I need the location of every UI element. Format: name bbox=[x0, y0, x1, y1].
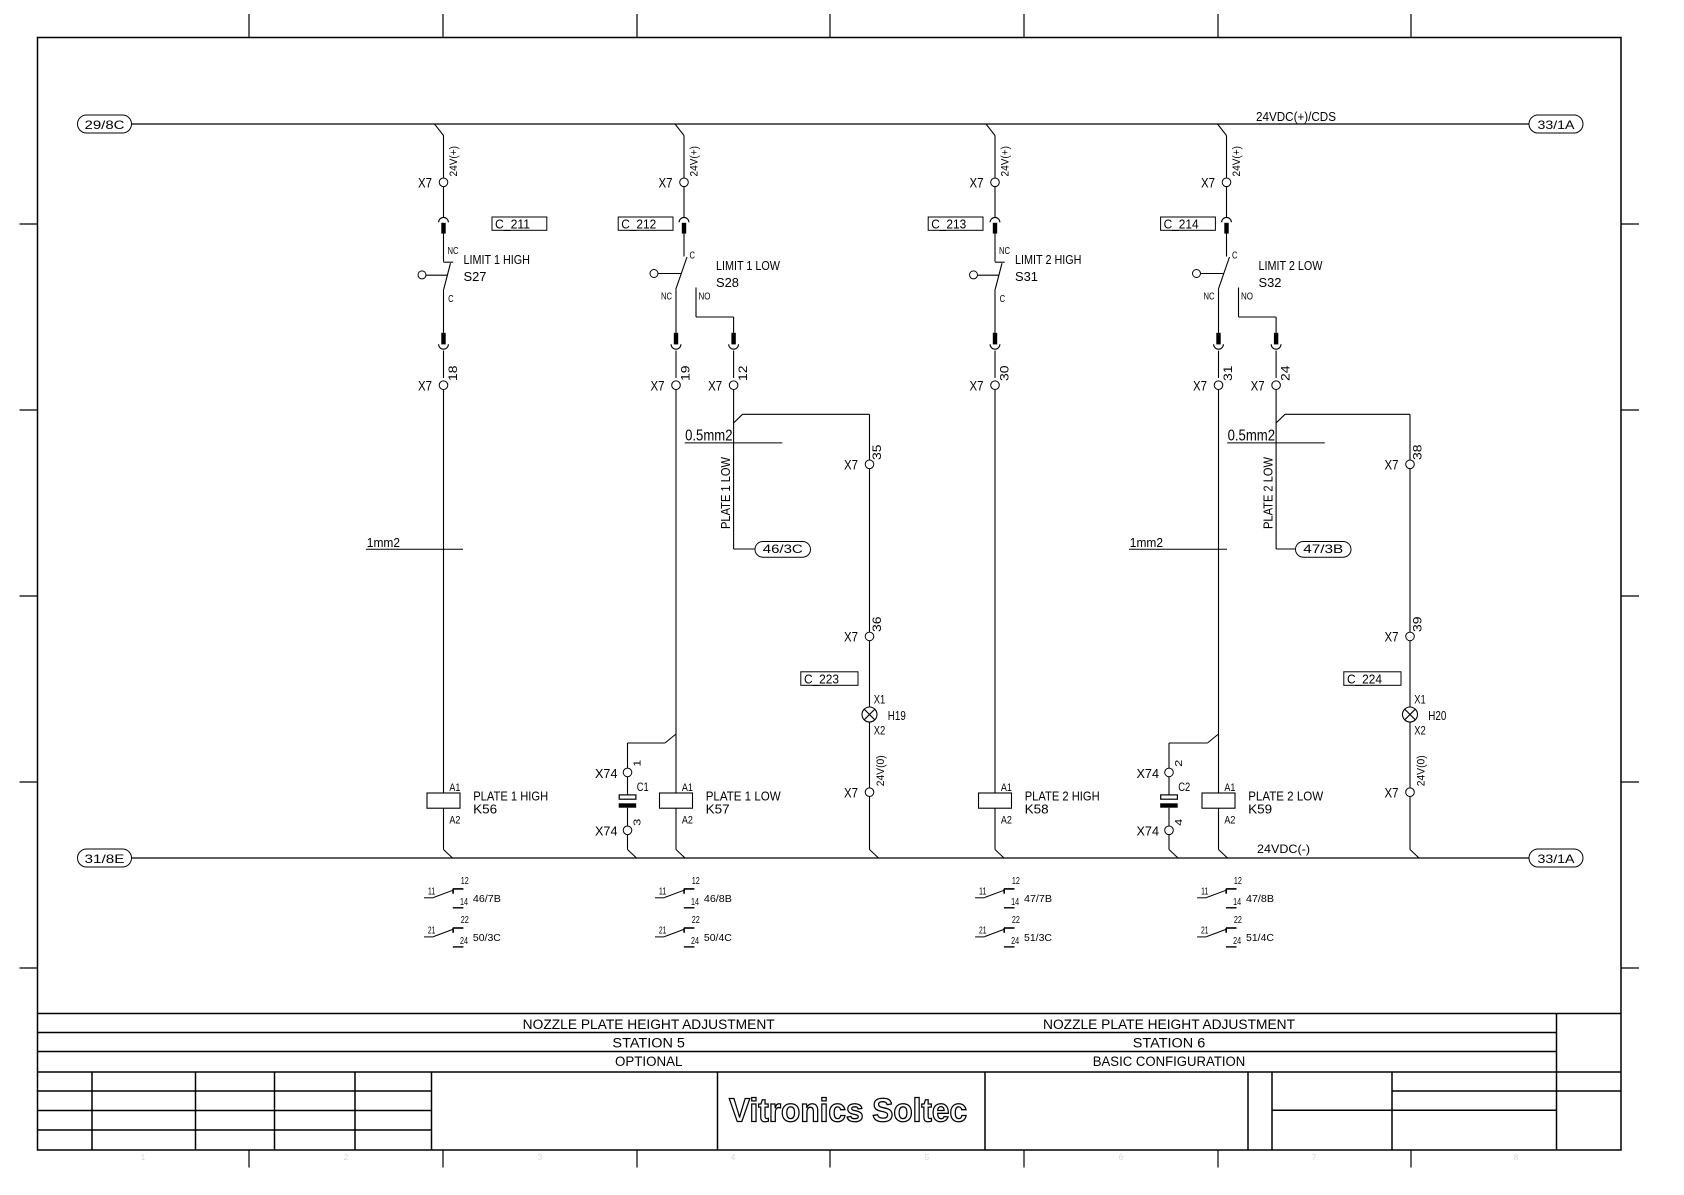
svg-text:31/8E: 31/8E bbox=[85, 852, 125, 866]
wire tap from coil branch to C1 bbox=[628, 734, 677, 768]
capacitor C1 (polarized) bbox=[619, 780, 649, 808]
svg-text:C: C bbox=[1232, 250, 1238, 262]
svg-text:4: 4 bbox=[731, 1152, 736, 1162]
svg-text:Vitronics Soltec: Vitronics Soltec bbox=[729, 1092, 967, 1129]
wire branch 4 bbox=[1226, 187, 1228, 218]
svg-text:24VDC(-): 24VDC(-) bbox=[1257, 842, 1310, 856]
svg-text:46/3C: 46/3C bbox=[763, 542, 803, 556]
svg-text:21: 21 bbox=[979, 925, 987, 936]
relay coil K57 bbox=[660, 782, 693, 826]
relay coil K56 bbox=[427, 782, 460, 826]
indicator lamp H20 (pins X1/X2) bbox=[1403, 695, 1447, 738]
svg-text:X7: X7 bbox=[1385, 457, 1399, 473]
svg-text:K57: K57 bbox=[706, 802, 730, 817]
wire branch 1 from +rail bbox=[435, 124, 444, 178]
wire K56 A2 to -rail bbox=[444, 808, 453, 858]
svg-text:1: 1 bbox=[141, 1152, 146, 1162]
svg-text:11: 11 bbox=[659, 886, 667, 897]
svg-text:LIMIT 1 HIGH: LIMIT 1 HIGH bbox=[464, 252, 531, 267]
svg-text:24: 24 bbox=[691, 936, 699, 947]
svg-text:NC: NC bbox=[999, 245, 1010, 257]
terminal X7:31 bbox=[1193, 351, 1235, 394]
terminal X7:30 bbox=[970, 351, 1012, 394]
svg-text:30: 30 bbox=[998, 365, 1012, 381]
wire NO leg down to destination 46/3C bbox=[734, 390, 755, 550]
svg-text:14: 14 bbox=[460, 897, 468, 908]
svg-text:STATION 5: STATION 5 bbox=[612, 1036, 685, 1051]
svg-text:51/3C: 51/3C bbox=[1024, 932, 1052, 944]
wire K58 A2 to -rail bbox=[995, 808, 1004, 858]
svg-text:24V(+): 24V(+) bbox=[689, 146, 701, 177]
label PLATE 1 LOW (rotated) bbox=[718, 456, 733, 529]
wire bbox=[869, 469, 871, 632]
wire branch 2 NC leg down to relay coil (tap to C1 at node) bbox=[675, 390, 677, 794]
svg-text:8: 8 bbox=[1514, 1152, 1519, 1162]
wire bbox=[869, 722, 871, 788]
svg-text:35: 35 bbox=[870, 444, 884, 460]
svg-text:12: 12 bbox=[692, 876, 700, 887]
connector pin pair branch 4 (upper) bbox=[1222, 217, 1232, 233]
svg-text:K58: K58 bbox=[1025, 802, 1049, 817]
wire branch 3 down to relay coil bbox=[994, 390, 996, 794]
wire K59 A2 to -rail bbox=[1219, 808, 1228, 858]
wire NO leg down to destination 47/3B bbox=[1276, 390, 1295, 550]
svg-text:NC: NC bbox=[448, 245, 459, 257]
svg-text:24: 24 bbox=[1233, 936, 1241, 947]
svg-text:12: 12 bbox=[1012, 876, 1020, 887]
svg-text:38: 38 bbox=[1411, 444, 1425, 460]
svg-text:X74: X74 bbox=[1137, 766, 1160, 781]
svg-text:X7: X7 bbox=[708, 378, 722, 394]
svg-text:33/1A: 33/1A bbox=[1538, 852, 1575, 866]
terminal X74:1 bbox=[595, 759, 643, 781]
node 33/1A (destination arrow bottom right) bbox=[1529, 849, 1583, 867]
connector pin pair NO leg S32 bbox=[1271, 333, 1281, 349]
svg-text:24: 24 bbox=[460, 936, 468, 947]
svg-text:11: 11 bbox=[979, 886, 987, 897]
svg-text:46/7B: 46/7B bbox=[473, 893, 501, 905]
wire NC leg of S32 bbox=[1218, 290, 1220, 333]
indicator lamp H19 (pins X1/X2) bbox=[862, 695, 906, 738]
svg-text:H19: H19 bbox=[888, 708, 906, 723]
svg-text:0.5mm2: 0.5mm2 bbox=[1228, 428, 1275, 445]
svg-text:X7: X7 bbox=[844, 785, 858, 801]
wire bbox=[1168, 808, 1170, 826]
wire bbox=[627, 777, 629, 795]
svg-text:X7: X7 bbox=[1251, 378, 1265, 394]
svg-text:39: 39 bbox=[1411, 616, 1425, 632]
svg-text:A1: A1 bbox=[449, 782, 460, 794]
svg-text:NOZZLE PLATE HEIGHT ADJUSTMENT: NOZZLE PLATE HEIGHT ADJUSTMENT bbox=[1043, 1017, 1295, 1032]
terminal X7:35 bbox=[844, 444, 884, 472]
svg-text:2: 2 bbox=[344, 1152, 349, 1162]
node 46/3C (destination arrow) bbox=[755, 542, 811, 558]
svg-text:X7: X7 bbox=[1385, 785, 1399, 801]
svg-text:X7: X7 bbox=[970, 175, 984, 191]
svg-text:C_212: C_212 bbox=[621, 217, 656, 232]
svg-text:29/8C: 29/8C bbox=[85, 118, 125, 132]
svg-text:3: 3 bbox=[633, 818, 644, 826]
svg-text:H20: H20 bbox=[1428, 708, 1446, 723]
svg-text:X7: X7 bbox=[418, 378, 432, 394]
svg-text:C_223: C_223 bbox=[804, 671, 839, 686]
svg-text:A2: A2 bbox=[1001, 814, 1012, 826]
svg-text:OPTIONAL: OPTIONAL bbox=[615, 1054, 683, 1069]
terminal X7 24V(+) branch 3 bbox=[970, 175, 1000, 191]
wire branch 1 bbox=[443, 187, 445, 218]
wire 24VDC(-) bottom rail bbox=[132, 857, 1530, 859]
svg-text:22: 22 bbox=[461, 915, 469, 926]
svg-text:X7: X7 bbox=[970, 378, 984, 394]
svg-text:14: 14 bbox=[1233, 897, 1241, 908]
svg-text:21: 21 bbox=[659, 925, 667, 936]
svg-text:LIMIT 1 LOW: LIMIT 1 LOW bbox=[716, 258, 781, 273]
svg-text:X2: X2 bbox=[874, 726, 886, 738]
contact cross-reference K58 (11/12/14 47-7B, 21/22/24 51-3C) bbox=[975, 876, 1052, 947]
svg-text:24: 24 bbox=[1279, 365, 1293, 381]
wire bbox=[1409, 722, 1411, 788]
label LIMIT 2 LOW S32 bbox=[1259, 258, 1324, 290]
svg-text:C_213: C_213 bbox=[931, 217, 966, 232]
wire NC leg of S28 bbox=[675, 290, 677, 333]
svg-text:11: 11 bbox=[428, 886, 436, 897]
svg-text:12: 12 bbox=[1234, 876, 1242, 887]
cable marker C_213 bbox=[928, 217, 983, 232]
label PLATE 2 LOW K59 bbox=[1248, 789, 1324, 817]
svg-text:A1: A1 bbox=[1001, 782, 1012, 794]
wire size label 0.5mm2 (left) bbox=[685, 428, 783, 445]
limit switch S32 (changeover contact) bbox=[1193, 234, 1254, 303]
svg-text:21: 21 bbox=[428, 925, 436, 936]
label 24V(0) bbox=[1416, 755, 1428, 786]
svg-text:36: 36 bbox=[870, 616, 884, 632]
label 24V(+) branch 1 bbox=[448, 146, 460, 177]
wire bbox=[1168, 777, 1170, 795]
wire to -rail bbox=[628, 835, 637, 858]
svg-text:2: 2 bbox=[1174, 759, 1185, 767]
svg-text:A2: A2 bbox=[449, 814, 460, 826]
terminal X7 24V(+) branch 1 bbox=[418, 175, 448, 191]
svg-text:24V(+): 24V(+) bbox=[1000, 146, 1012, 177]
label PLATE 2 HIGH K58 bbox=[1025, 789, 1100, 817]
svg-text:24VDC(+)/CDS: 24VDC(+)/CDS bbox=[1256, 109, 1336, 124]
connector pin pair NC leg S32 bbox=[1214, 333, 1224, 349]
svg-text:X7: X7 bbox=[844, 457, 858, 473]
svg-text:12: 12 bbox=[736, 365, 750, 381]
svg-text:A2: A2 bbox=[682, 814, 693, 826]
wire branch 3 bbox=[994, 187, 996, 218]
svg-text:X7: X7 bbox=[1193, 378, 1207, 394]
node 33/1A (destination arrow top right) bbox=[1529, 115, 1583, 133]
svg-text:50/3C: 50/3C bbox=[473, 932, 501, 944]
svg-text:X7: X7 bbox=[651, 378, 665, 394]
svg-text:47/7B: 47/7B bbox=[1024, 893, 1052, 905]
svg-text:24V(+): 24V(+) bbox=[448, 146, 460, 177]
wire branch 3 from +rail bbox=[986, 124, 995, 178]
svg-text:X74: X74 bbox=[1137, 824, 1160, 839]
svg-text:4: 4 bbox=[1174, 818, 1185, 826]
cable marker C_212 bbox=[618, 217, 673, 232]
svg-text:NO: NO bbox=[699, 291, 711, 303]
limit switch S27 (NC contact) bbox=[418, 234, 459, 333]
svg-text:K56: K56 bbox=[473, 802, 497, 817]
svg-text:X7: X7 bbox=[1385, 629, 1399, 645]
wire branch 2 bbox=[683, 187, 685, 218]
svg-text:C: C bbox=[448, 293, 454, 305]
wire tap from coil branch to C2 bbox=[1169, 734, 1219, 768]
svg-text:A1: A1 bbox=[1224, 782, 1235, 794]
title: nozzle plate height adjustment (station 5) bbox=[523, 1017, 775, 1069]
wire branch 1 down to relay coil bbox=[443, 390, 445, 794]
svg-text:C: C bbox=[690, 250, 696, 262]
svg-text:S31: S31 bbox=[1015, 269, 1038, 284]
label LIMIT 2 HIGH S31 bbox=[1015, 252, 1082, 284]
svg-text:BASIC CONFIGURATION: BASIC CONFIGURATION bbox=[1093, 1054, 1246, 1069]
terminal X7:39 bbox=[1385, 616, 1425, 645]
wire bbox=[627, 808, 629, 826]
wire size label 1mm2 (right) bbox=[1129, 535, 1227, 550]
svg-text:NO: NO bbox=[1241, 291, 1253, 303]
svg-text:C_214: C_214 bbox=[1164, 217, 1199, 232]
wire to -rail bbox=[1169, 835, 1178, 858]
svg-text:50/4C: 50/4C bbox=[704, 932, 732, 944]
cable marker C_224 bbox=[1344, 671, 1401, 686]
svg-text:0.5mm2: 0.5mm2 bbox=[685, 428, 732, 445]
label LIMIT 1 LOW S28 bbox=[716, 258, 781, 290]
cable marker C_211 bbox=[492, 217, 547, 232]
svg-text:NC: NC bbox=[661, 291, 672, 303]
connector pin pair branch 3 (upper) bbox=[990, 217, 1000, 233]
svg-text:LIMIT 2 LOW: LIMIT 2 LOW bbox=[1259, 258, 1324, 273]
svg-text:NC: NC bbox=[1204, 291, 1215, 303]
label 24V(+) branch 2 bbox=[689, 146, 701, 177]
svg-text:7: 7 bbox=[1312, 1152, 1317, 1162]
connector pin pair branch 2 (upper) bbox=[679, 217, 689, 233]
wire bbox=[1409, 641, 1411, 707]
svg-text:X7: X7 bbox=[1201, 175, 1215, 191]
cable marker C_223 bbox=[801, 671, 858, 686]
label PLATE 1 LOW K57 bbox=[706, 789, 782, 817]
wire 24VDC(+) top rail bbox=[132, 123, 1530, 125]
svg-text:A1: A1 bbox=[682, 782, 693, 794]
capacitor C2 (polarized) bbox=[1160, 780, 1190, 808]
svg-text:22: 22 bbox=[1012, 915, 1020, 926]
wire size label 0.5mm2 (right) bbox=[1227, 428, 1325, 445]
svg-text:47/8B: 47/8B bbox=[1246, 893, 1274, 905]
svg-text:24V(+): 24V(+) bbox=[1231, 146, 1243, 177]
svg-text:46/8B: 46/8B bbox=[704, 893, 732, 905]
label 24V(+) branch 4 bbox=[1231, 146, 1243, 177]
svg-text:PLATE 1 LOW: PLATE 1 LOW bbox=[718, 456, 733, 529]
node 29/8C (source arrow top left) bbox=[78, 115, 132, 133]
svg-text:19: 19 bbox=[679, 365, 693, 381]
wire K57 A2 to -rail bbox=[676, 808, 685, 858]
net label 24VDC(+)/CDS bbox=[1256, 109, 1336, 124]
terminal X74:3 bbox=[595, 818, 644, 838]
terminal X7 24V(+) branch 4 bbox=[1201, 175, 1231, 191]
connector pin pair below S27 bbox=[439, 333, 449, 349]
wire tap to indicator lamp branch bbox=[734, 414, 870, 460]
terminal X7:38 bbox=[1385, 444, 1425, 472]
svg-text:X74: X74 bbox=[595, 824, 618, 839]
net label 24VDC(-) bbox=[1257, 842, 1310, 856]
svg-text:51/4C: 51/4C bbox=[1246, 932, 1274, 944]
svg-text:3: 3 bbox=[538, 1152, 543, 1162]
svg-text:22: 22 bbox=[1234, 915, 1242, 926]
connector pin pair below S31 bbox=[990, 333, 1000, 349]
limit switch S31 (NC contact) bbox=[970, 234, 1011, 333]
svg-text:C2: C2 bbox=[1178, 780, 1190, 794]
contact cross-reference K57 (11/12/14 46-8B, 21/22/24 50-4C) bbox=[655, 876, 732, 947]
svg-text:24V(0): 24V(0) bbox=[875, 755, 887, 786]
wire NO leg of S32 bbox=[1239, 288, 1277, 333]
svg-text:24V(0): 24V(0) bbox=[1416, 755, 1428, 786]
wire branch 2 from +rail bbox=[675, 124, 684, 178]
svg-text:NOZZLE PLATE HEIGHT ADJUSTMENT: NOZZLE PLATE HEIGHT ADJUSTMENT bbox=[523, 1017, 775, 1032]
terminal X74:2 bbox=[1137, 759, 1185, 781]
svg-text:18: 18 bbox=[446, 365, 460, 381]
svg-text:C: C bbox=[1000, 293, 1006, 305]
svg-text:X7: X7 bbox=[659, 175, 673, 191]
label 24V(+) branch 3 bbox=[1000, 146, 1012, 177]
cable marker C_214 bbox=[1161, 217, 1216, 232]
wire to -rail bbox=[1410, 797, 1419, 859]
terminal X7:19 bbox=[651, 351, 693, 394]
svg-text:S27: S27 bbox=[464, 269, 487, 284]
connector pin pair NC leg S28 bbox=[671, 333, 681, 349]
svg-text:1: 1 bbox=[632, 759, 643, 767]
wire NO leg of S28 bbox=[696, 288, 734, 333]
title: nozzle plate height adjustment (station 6) bbox=[1043, 1017, 1295, 1069]
svg-text:C_224: C_224 bbox=[1347, 671, 1382, 686]
terminal X7:18 bbox=[418, 351, 460, 394]
terminal X7:24 bbox=[1251, 351, 1293, 394]
svg-text:6: 6 bbox=[1119, 1152, 1124, 1162]
svg-text:PLATE 2 LOW: PLATE 2 LOW bbox=[1260, 456, 1275, 529]
svg-text:LIMIT 2 HIGH: LIMIT 2 HIGH bbox=[1015, 252, 1082, 267]
svg-text:33/1A: 33/1A bbox=[1538, 118, 1575, 132]
wire to -rail bbox=[870, 797, 879, 859]
svg-text:47/3B: 47/3B bbox=[1303, 542, 1343, 556]
wire bbox=[869, 641, 871, 707]
svg-text:X74: X74 bbox=[595, 766, 618, 781]
svg-text:X2: X2 bbox=[1414, 726, 1426, 738]
connector pin pair NO leg S28 bbox=[729, 333, 739, 349]
svg-text:X7: X7 bbox=[844, 629, 858, 645]
wire size label 1mm2 (left) bbox=[366, 535, 463, 550]
terminal X7:36 bbox=[844, 616, 884, 645]
svg-text:STATION 6: STATION 6 bbox=[1133, 1036, 1206, 1051]
wire bbox=[1409, 469, 1411, 632]
logo Vitronics Soltec bbox=[729, 1092, 967, 1129]
svg-text:A2: A2 bbox=[1224, 814, 1235, 826]
svg-text:11: 11 bbox=[1201, 886, 1209, 897]
svg-text:12: 12 bbox=[461, 876, 469, 887]
svg-text:14: 14 bbox=[691, 897, 699, 908]
contact cross-reference K56 (11/12/14 46-7B, 21/22/24 50-3C) bbox=[424, 876, 501, 947]
limit switch S28 (changeover contact) bbox=[650, 234, 711, 303]
relay coil K59 bbox=[1202, 782, 1235, 826]
svg-text:S28: S28 bbox=[716, 275, 739, 290]
svg-text:14: 14 bbox=[1011, 897, 1019, 908]
terminal X7 24V(0) bbox=[1385, 785, 1415, 801]
terminal X7:12 bbox=[708, 351, 750, 394]
label PLATE 2 LOW (rotated) bbox=[1260, 456, 1275, 529]
terminal X7 24V(0) bbox=[844, 785, 874, 801]
terminal X74:4 bbox=[1137, 818, 1186, 838]
svg-text:K59: K59 bbox=[1248, 802, 1272, 817]
svg-text:X1: X1 bbox=[874, 695, 886, 707]
svg-text:1mm2: 1mm2 bbox=[367, 535, 400, 550]
svg-text:24: 24 bbox=[1011, 936, 1019, 947]
svg-text:5: 5 bbox=[925, 1152, 930, 1162]
contact cross-reference K59 (11/12/14 47-8B, 21/22/24 51-4C) bbox=[1197, 876, 1274, 947]
node 47/3B (destination arrow) bbox=[1296, 542, 1352, 558]
svg-text:S32: S32 bbox=[1259, 275, 1282, 290]
label LIMIT 1 HIGH S27 bbox=[464, 252, 531, 284]
label 24V(0) bbox=[875, 755, 887, 786]
svg-text:1mm2: 1mm2 bbox=[1130, 535, 1163, 550]
svg-text:X7: X7 bbox=[418, 175, 432, 191]
svg-text:21: 21 bbox=[1201, 925, 1209, 936]
svg-text:31: 31 bbox=[1221, 365, 1235, 381]
svg-text:C1: C1 bbox=[637, 780, 649, 794]
label PLATE 1 HIGH K56 bbox=[473, 789, 548, 817]
svg-text:X1: X1 bbox=[1414, 695, 1426, 707]
connector pin pair branch 1 (upper) bbox=[439, 217, 449, 233]
wire branch 4 from +rail bbox=[1218, 124, 1227, 178]
node 31/8E (source arrow bottom left) bbox=[78, 849, 132, 867]
svg-text:C_211: C_211 bbox=[495, 217, 530, 232]
relay coil K58 bbox=[979, 782, 1012, 826]
wire tap to indicator lamp branch bbox=[1276, 414, 1410, 460]
svg-text:22: 22 bbox=[692, 915, 700, 926]
terminal X7 24V(+) branch 2 bbox=[659, 175, 689, 191]
wire branch 4 NC leg down to relay coil (tap to C2 at node) bbox=[1218, 390, 1220, 794]
